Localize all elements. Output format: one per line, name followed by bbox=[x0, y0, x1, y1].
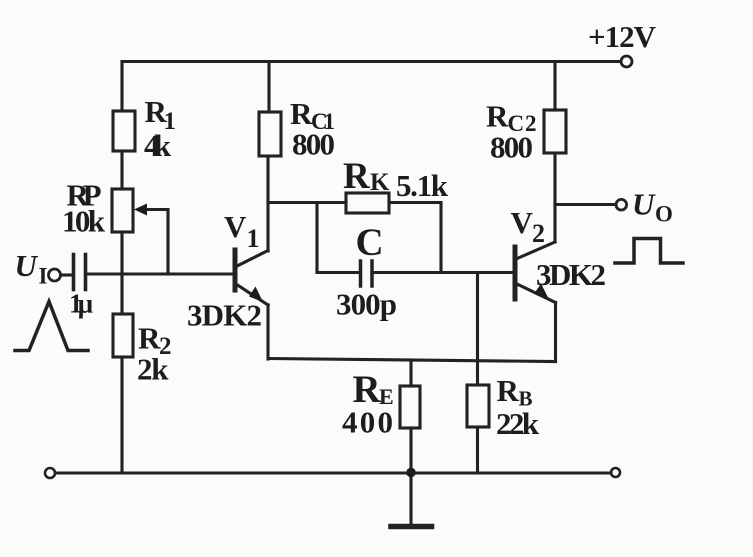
svg-text:3DK2: 3DK2 bbox=[536, 257, 606, 292]
svg-text:I: I bbox=[39, 264, 48, 289]
svg-text:4k: 4k bbox=[144, 128, 172, 163]
svg-text:22k: 22k bbox=[496, 406, 540, 441]
svg-text:R: R bbox=[138, 321, 161, 356]
svg-text:800: 800 bbox=[292, 127, 335, 162]
svg-text:2k: 2k bbox=[137, 352, 169, 387]
svg-text:U: U bbox=[632, 187, 656, 222]
svg-text:C: C bbox=[356, 221, 384, 264]
svg-text:U: U bbox=[15, 248, 39, 283]
svg-text:800: 800 bbox=[490, 130, 533, 165]
svg-text:1: 1 bbox=[247, 224, 260, 253]
svg-text:10k: 10k bbox=[62, 204, 106, 239]
svg-text:+12V: +12V bbox=[588, 19, 657, 54]
svg-text:2: 2 bbox=[532, 219, 545, 248]
svg-text:R: R bbox=[343, 156, 371, 197]
svg-text:5.1k: 5.1k bbox=[396, 168, 449, 203]
svg-text:3DK2: 3DK2 bbox=[187, 298, 262, 333]
svg-text:K: K bbox=[370, 169, 390, 196]
svg-text:R: R bbox=[486, 99, 509, 134]
svg-text:R: R bbox=[497, 373, 520, 408]
svg-text:1μ: 1μ bbox=[69, 289, 93, 319]
svg-text:V: V bbox=[511, 205, 534, 240]
svg-text:300p: 300p bbox=[336, 287, 397, 322]
svg-text:O: O bbox=[655, 202, 673, 227]
svg-text:V: V bbox=[224, 209, 247, 244]
svg-text:400: 400 bbox=[342, 405, 393, 440]
